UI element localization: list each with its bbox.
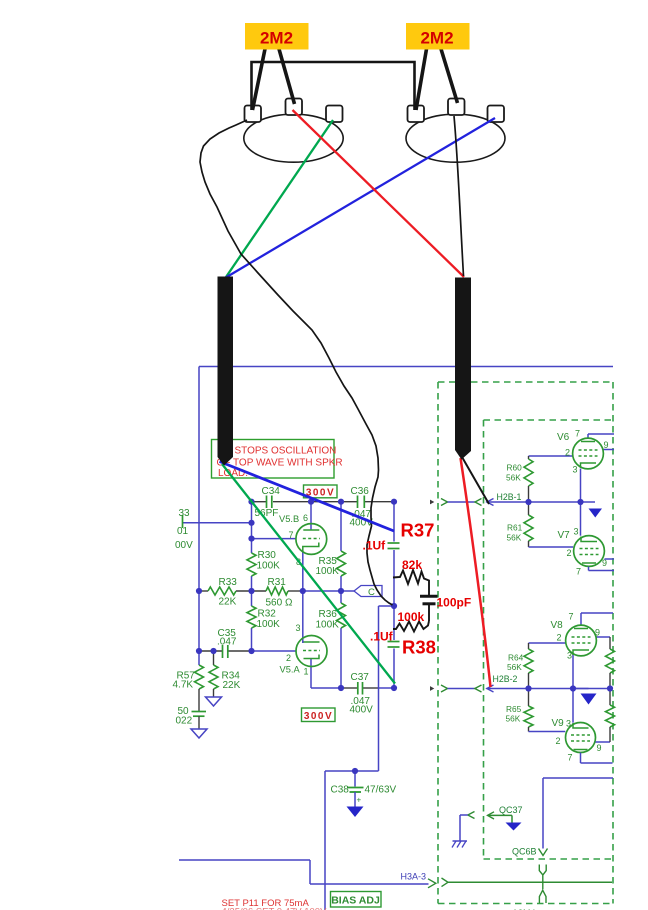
svg-text:R31: R31 <box>268 577 287 588</box>
wire V6 pin3 to V7 pin3 <box>580 469 582 536</box>
tube V8 <box>566 625 597 656</box>
terminal lug 1 <box>245 106 262 123</box>
svg-text:2: 2 <box>557 633 562 643</box>
svg-text:2: 2 <box>565 448 570 458</box>
svg-text:56K: 56K <box>507 662 522 672</box>
wire: right 2M2 lead A <box>416 49 427 110</box>
wire R33/R31 row <box>199 590 208 592</box>
junction dots <box>248 499 254 505</box>
wire node C stub down to C38 <box>379 605 395 607</box>
svg-text:H2B-1: H2B-1 <box>497 492 522 502</box>
hand line green upper (terminal to bar1) <box>226 120 333 277</box>
svg-text:022: 022 <box>176 716 193 727</box>
wire V8 pin9 <box>597 636 611 638</box>
resistor R32 100K <box>247 606 256 628</box>
resistor R64 56K <box>528 643 530 649</box>
terminal lug 2 <box>286 99 303 116</box>
svg-text:C36: C36 <box>351 486 370 497</box>
wire V5.B plate stub <box>310 502 312 530</box>
svg-text:100K: 100K <box>257 561 281 572</box>
svg-text:4.7K: 4.7K <box>173 680 194 691</box>
wire H2B-1 row <box>487 501 581 503</box>
resistor R30 100K <box>247 553 256 576</box>
earth ground QC37 <box>459 815 461 841</box>
svg-text:R64: R64 <box>508 653 524 663</box>
svg-text:H3A-3: H3A-3 <box>401 872 427 882</box>
svg-text:7: 7 <box>575 429 580 439</box>
svg-text:2: 2 <box>567 548 572 558</box>
green dashed outer box <box>438 382 613 904</box>
resistor R57 4.7K <box>195 665 204 689</box>
svg-text:R60: R60 <box>507 463 523 473</box>
wire V8 pin3 to V9 pin3 <box>572 654 574 723</box>
wire V8 pin2 row <box>529 642 566 644</box>
svg-text:33: 33 <box>179 508 191 519</box>
hand line blue upper (terminal to bar1) <box>225 118 495 278</box>
svg-text:.1Uf: .1Uf <box>363 539 387 553</box>
resistor R34 22K <box>213 651 215 665</box>
svg-text:47/63V: 47/63V <box>365 785 397 796</box>
svg-text:C38: C38 <box>331 785 350 796</box>
QC6B arrow <box>539 849 548 856</box>
svg-text:R37: R37 <box>401 520 435 541</box>
H2B-1 arrow <box>487 499 494 506</box>
resistor (plate load upper, unlabeled) <box>606 649 615 673</box>
terminal lug 5 <box>448 99 465 116</box>
svg-text:IT STOPS OSCILLATION: IT STOPS OSCILLATION <box>223 446 336 457</box>
wire V5.A cathode stub <box>310 658 312 688</box>
hand capacitor 100pF <box>420 595 438 598</box>
right rail with plate resistors <box>609 637 611 649</box>
BIAS ADJ box <box>331 892 382 908</box>
svg-text:R61: R61 <box>507 523 523 533</box>
terminal lug 4 <box>408 106 425 123</box>
tube V9 <box>566 723 596 753</box>
left rail / border vertical <box>198 367 200 666</box>
note box STOPS OSCILLATION <box>212 440 335 479</box>
tube V7 <box>574 536 605 567</box>
svg-text:R30: R30 <box>258 550 277 561</box>
300V label box (top) <box>304 485 338 498</box>
blue page border top <box>199 366 613 368</box>
wire + polarity arrow between V6/V7 <box>581 501 596 503</box>
svg-text:V6: V6 <box>557 432 570 443</box>
svg-text:56K: 56K <box>507 533 522 543</box>
svg-text:400V: 400V <box>350 705 374 716</box>
svg-text:C37: C37 <box>351 672 370 683</box>
hand line red lower (bar2 to H2B-2) <box>461 458 491 687</box>
wire V7 pin2 row <box>529 546 574 548</box>
wire: jumper between left and right terminal strips <box>252 62 415 110</box>
wire V7 pin9 <box>605 558 615 560</box>
svg-text:560 Ω: 560 Ω <box>266 598 293 609</box>
wire: left 2M2 lead A <box>253 49 266 110</box>
transformer body left (ellipse) <box>244 114 343 162</box>
svg-text:V8: V8 <box>551 620 564 631</box>
hand line black lower (bar2 to H2B-1) <box>462 457 489 504</box>
hand resistor 82k <box>393 570 429 592</box>
capacitor C50 .022 (clipped) <box>198 689 200 711</box>
QC6B mating connector forks <box>539 865 543 883</box>
svg-text:QC6B: QC6B <box>512 847 537 857</box>
terminal lug 6 <box>488 106 505 123</box>
svg-text:01: 01 <box>177 526 189 537</box>
svg-text:7: 7 <box>568 753 573 763</box>
svg-text:7: 7 <box>576 567 581 577</box>
svg-text:100k: 100k <box>398 610 425 624</box>
marker bar 1 <box>218 277 234 466</box>
svg-text:56K: 56K <box>506 714 521 724</box>
marker bar 2 <box>455 278 471 460</box>
hand line black (right terminal to bar2) <box>454 116 464 276</box>
svg-text:3: 3 <box>573 465 578 475</box>
svg-text:.1Uf: .1Uf <box>370 630 394 644</box>
svg-text:00V: 00V <box>175 540 193 551</box>
wire QC6B feed <box>543 777 613 779</box>
svg-text:C34: C34 <box>262 486 281 497</box>
svg-text:C: C <box>368 587 375 598</box>
polarity arrow C38 <box>347 807 364 818</box>
wire right rail x=394 <box>393 502 395 542</box>
svg-text:QC37: QC37 <box>499 805 523 815</box>
svg-text:9: 9 <box>604 440 609 450</box>
connector pair H2B-1 <box>430 500 434 505</box>
ground below C50 <box>191 729 207 738</box>
svg-text:2M2: 2M2 <box>420 29 453 48</box>
connector pair H2B-2 <box>430 686 434 691</box>
wire C35 row <box>199 650 222 652</box>
svg-text:V9: V9 <box>552 718 565 729</box>
resistor R36 100K <box>337 603 346 628</box>
wire V9 pin2 row <box>529 731 566 733</box>
transformer body right (ellipse) <box>406 114 505 162</box>
wire C38 row <box>325 770 379 772</box>
svg-text:9: 9 <box>595 628 600 638</box>
wire V9 pin7 <box>580 753 582 763</box>
resistor R31 560 ohm <box>266 587 288 595</box>
svg-text:BIAS ADJ: BIAS ADJ <box>331 894 380 906</box>
resistor R35 100K <box>337 551 346 576</box>
svg-text:7: 7 <box>289 530 294 540</box>
capacitor .1Uf lower (R38 position) <box>388 641 400 643</box>
wire C38 stub <box>354 771 356 787</box>
svg-text:H2B-2: H2B-2 <box>493 674 518 684</box>
svg-text:22K: 22K <box>223 680 241 691</box>
wire V7 pin7 <box>588 567 590 571</box>
svg-text:300V: 300V <box>304 711 333 722</box>
svg-text:22K: 22K <box>219 597 237 608</box>
svg-text:100K: 100K <box>316 566 340 577</box>
svg-text:82k: 82k <box>402 558 422 572</box>
tube V6 <box>573 438 604 469</box>
wire + polarity arrow between V8/V9 <box>573 688 589 690</box>
svg-text:V5.A: V5.A <box>280 665 301 675</box>
wire V6 pin9 <box>604 449 615 451</box>
polarity arrow QC37 <box>506 823 522 831</box>
svg-text:4/25/06 SET 0.47V 100V: 4/25/06 SET 0.47V 100V <box>222 907 328 910</box>
resistor R65 56K <box>528 689 530 707</box>
capacitor C37 .047 400V <box>357 682 359 695</box>
capacitor C33 (clipped at left) <box>182 515 184 528</box>
wire V6 pin7 <box>587 434 589 439</box>
wire rail x=342 (R35/R36) <box>340 502 342 551</box>
capacitor C34 56PF <box>266 496 268 509</box>
resistor 2M2 right (yellow highlight) <box>406 23 470 50</box>
svg-text:7: 7 <box>569 612 574 622</box>
wire: right 2M2 lead B <box>441 49 458 103</box>
svg-text:R33: R33 <box>219 577 238 588</box>
svg-text:R65: R65 <box>506 704 522 714</box>
svg-text:.047: .047 <box>217 637 237 648</box>
H2B-2 arrow <box>487 685 494 692</box>
node C flag <box>354 586 382 597</box>
wire top row 300V bus <box>252 501 267 503</box>
capacitor .1Uf upper (R37 position) <box>388 542 400 544</box>
capacitor C38 47/63V <box>347 787 364 789</box>
hand line green lower (bar1 to R38 node) <box>222 464 395 684</box>
svg-text:2: 2 <box>556 736 561 746</box>
hand resistor 100k <box>393 621 429 632</box>
svg-text:100K: 100K <box>316 620 340 631</box>
resistor (plate load lower, unlabeled) <box>606 705 615 727</box>
terminal lug 3 <box>326 106 343 123</box>
svg-text:100K: 100K <box>257 619 281 630</box>
QC37 arrow <box>488 812 495 819</box>
resistor 2M2 left (yellow highlight) <box>245 23 309 50</box>
QC37 connector <box>468 812 475 819</box>
green dashed inner box <box>484 420 612 859</box>
wire V6 pin2 row <box>529 455 573 457</box>
svg-text:3: 3 <box>566 719 571 729</box>
green bus line bottom <box>448 881 612 883</box>
svg-text:56K: 56K <box>506 473 521 483</box>
wire V5.B cathode to V5.A plate <box>302 551 304 644</box>
wire rail x=251 <box>251 502 253 553</box>
ground below R34 <box>206 697 222 706</box>
tube V5.B <box>296 524 327 555</box>
svg-text:R36: R36 <box>319 609 338 620</box>
tube V5.A <box>296 636 327 667</box>
resistor R33 22K <box>208 587 236 595</box>
hand line blue lower (bar1 to R37) <box>220 462 395 532</box>
H3A-3 arrow <box>428 879 436 888</box>
svg-text:R38: R38 <box>402 637 436 658</box>
hand line red upper (terminal to bar2) <box>293 110 465 277</box>
wire C33 row <box>183 522 252 524</box>
hand squiggle black (left terminal to node C area) <box>200 120 393 605</box>
resistor R60 56K <box>528 456 530 459</box>
svg-text:3: 3 <box>296 623 301 633</box>
svg-text:9: 9 <box>597 743 602 753</box>
svg-text:6: 6 <box>303 513 308 523</box>
wire: left 2M2 lead B <box>279 49 295 104</box>
capacitor C35 .047 <box>222 645 224 658</box>
resistor R61 56K <box>528 502 530 515</box>
wire bias row <box>179 859 310 861</box>
capacitor C36 .047 400V <box>357 496 359 509</box>
svg-text:1: 1 <box>304 667 309 677</box>
svg-text:V7: V7 <box>558 530 571 541</box>
connector H3A-3 <box>442 878 449 887</box>
svg-text:V5.B: V5.B <box>279 514 299 524</box>
svg-text:R32: R32 <box>258 609 277 620</box>
svg-text:3: 3 <box>574 527 579 537</box>
svg-text:3: 3 <box>567 651 572 661</box>
300V label box (bottom) <box>302 708 336 722</box>
svg-text:100pF: 100pF <box>437 596 472 610</box>
wire H2B-2 row <box>487 688 611 690</box>
svg-text:2: 2 <box>286 653 291 663</box>
wire V9 pin9 <box>596 741 611 743</box>
svg-text:+: + <box>357 796 362 805</box>
svg-text:2M2: 2M2 <box>260 29 293 48</box>
wire V8 pin7 <box>580 613 582 625</box>
wire bottom row <box>311 687 341 689</box>
wire V5.B grid row <box>252 538 297 540</box>
